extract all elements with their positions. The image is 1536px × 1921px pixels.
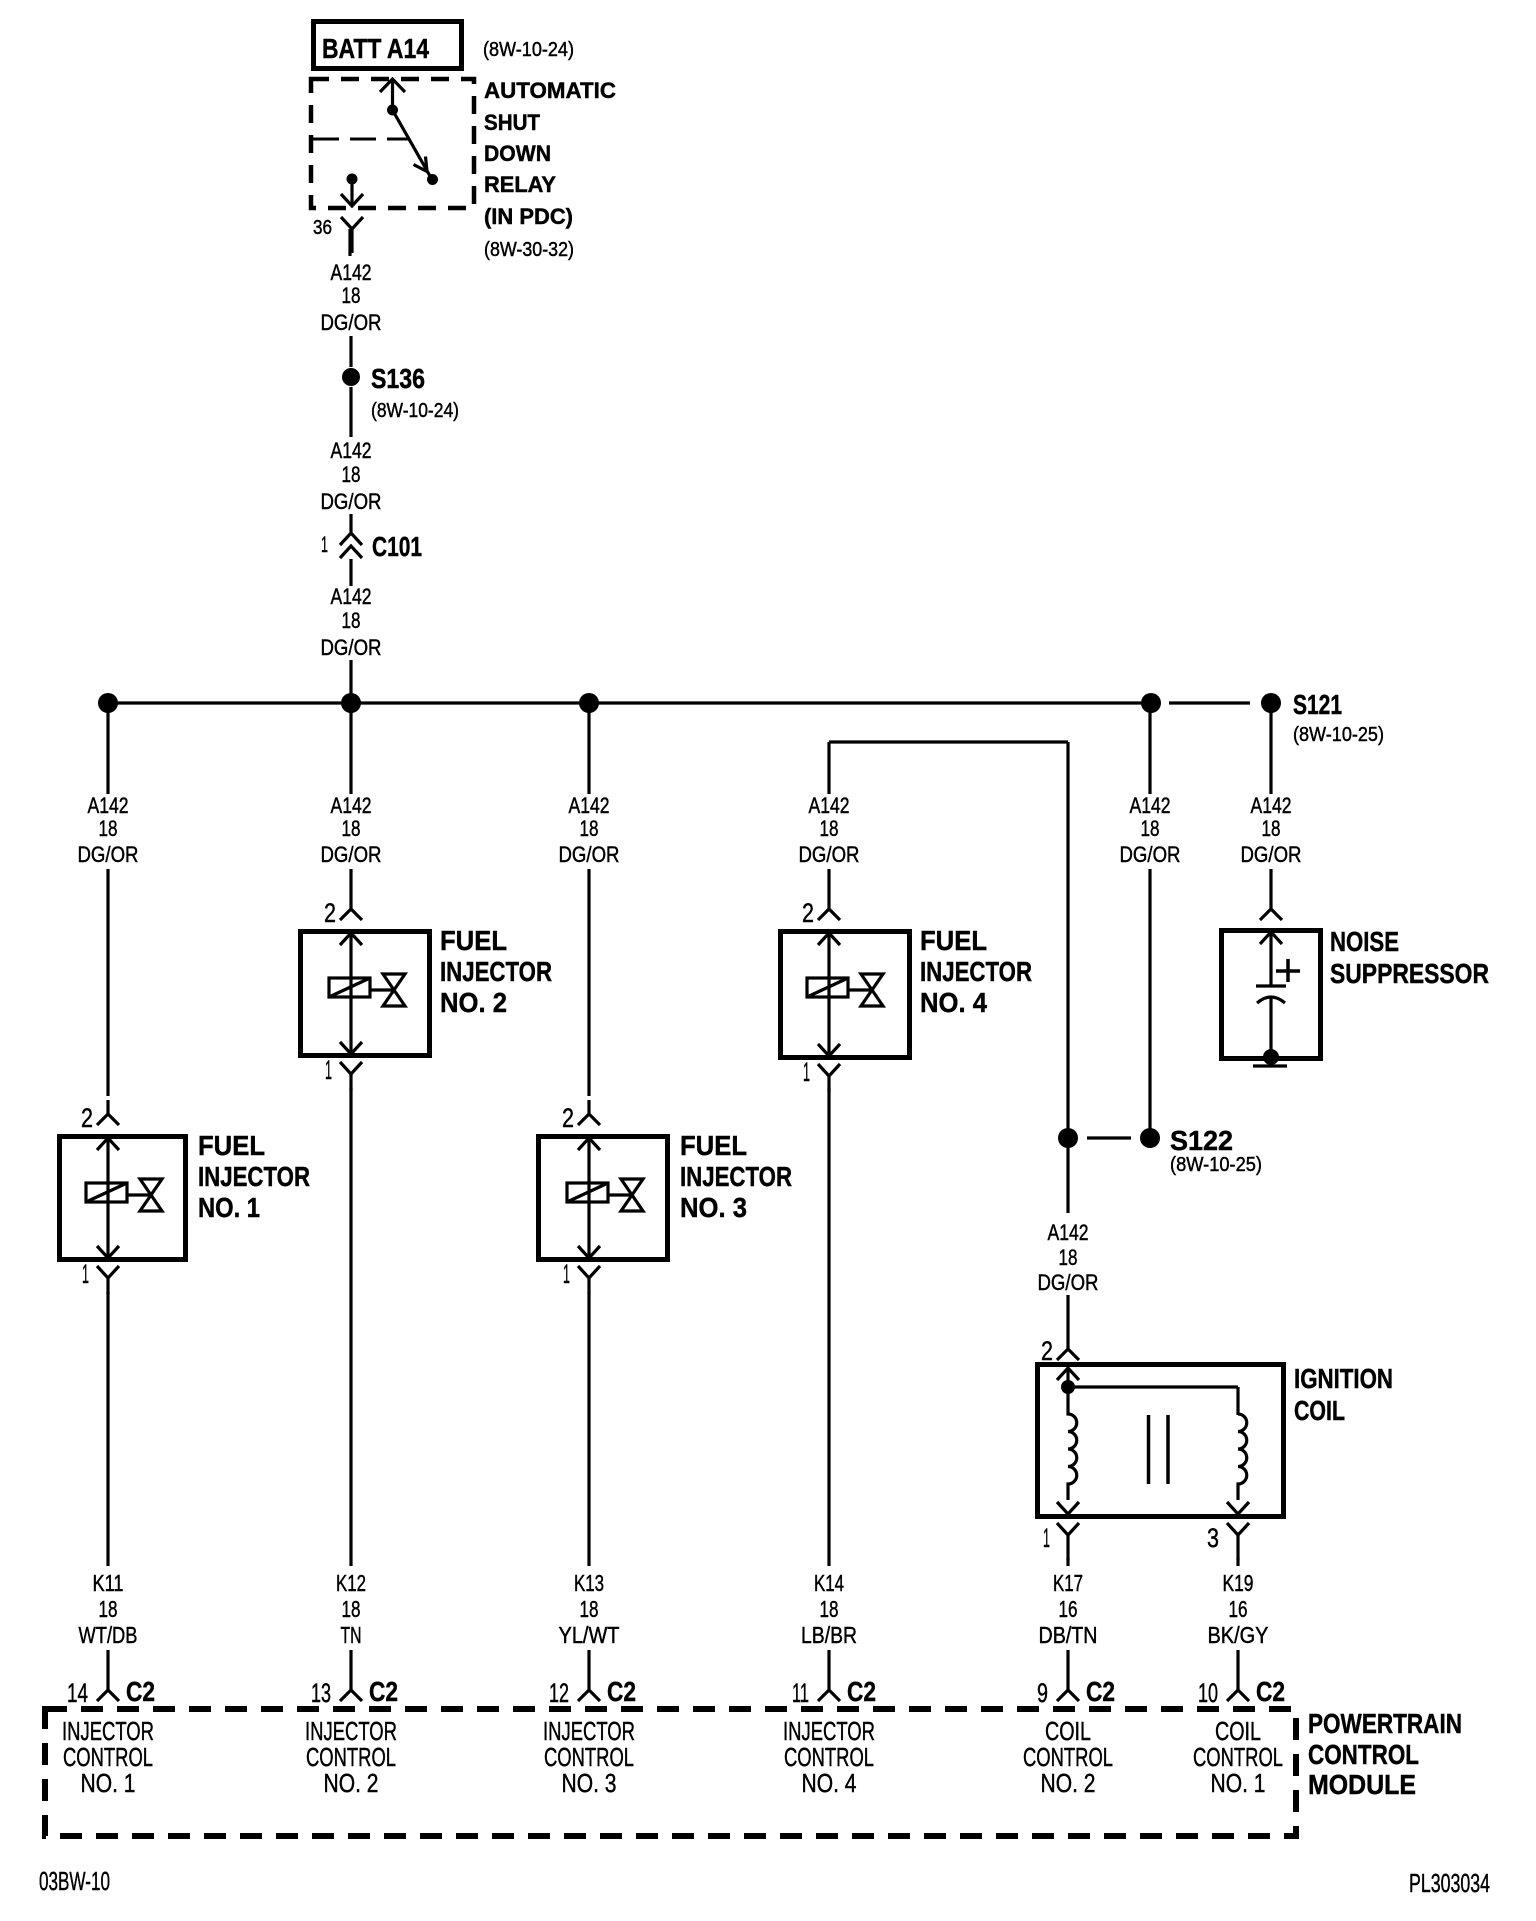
PCM text coil control no. 1 xyxy=(1193,1716,1283,1798)
wire xyxy=(349,336,352,367)
svg-text:12: 12 xyxy=(549,1678,569,1708)
svg-text:36: 36 xyxy=(313,217,332,239)
wire coil control 1 to PCM xyxy=(1236,1558,1239,1566)
bus junction dot (injector 1 drop) xyxy=(98,693,118,713)
svg-text:AUTOMATIC: AUTOMATIC xyxy=(484,78,616,103)
svg-text:A142: A142 xyxy=(1130,793,1171,818)
svg-text:2: 2 xyxy=(562,1103,574,1133)
PCM text injector control no. 4 xyxy=(783,1716,875,1798)
wire injector 3 feed upper xyxy=(587,703,590,794)
svg-text:DG/OR: DG/OR xyxy=(1038,1270,1099,1295)
svg-text:FUEL: FUEL xyxy=(920,925,987,956)
svg-text:IGNITION: IGNITION xyxy=(1294,1363,1393,1394)
wire label K17 16 DB/TN xyxy=(1039,1570,1098,1648)
wire label A142 18 DG/OR (S136 to C101) xyxy=(321,438,382,514)
svg-text:NOISE: NOISE xyxy=(1330,926,1399,957)
wire label K13 18 YL/WT xyxy=(559,1570,620,1648)
fuel injector NO. 3 label xyxy=(680,1130,792,1223)
svg-text:A142: A142 xyxy=(88,793,129,818)
svg-text:18: 18 xyxy=(580,1596,599,1622)
wire label A142 18 DG/OR (ignition coil feed) xyxy=(1038,1220,1099,1295)
splice S136 label xyxy=(371,363,459,422)
ignition coil pin 1 connector xyxy=(1057,1523,1079,1560)
PCM pin 14 connector xyxy=(97,1677,119,1701)
svg-text:NO. 4: NO. 4 xyxy=(920,987,987,1018)
svg-text:16: 16 xyxy=(1059,1596,1078,1622)
splice S121 dot xyxy=(1261,693,1281,713)
svg-text:18: 18 xyxy=(342,462,361,487)
wire injector 3 to PCM lower xyxy=(587,1650,590,1677)
wire label K19 16 BK/GY xyxy=(1208,1570,1269,1648)
svg-text:18: 18 xyxy=(820,816,839,841)
wire xyxy=(349,660,352,700)
svg-text:SUPPRESSOR: SUPPRESSOR xyxy=(1330,958,1489,989)
svg-text:DG/OR: DG/OR xyxy=(321,842,382,867)
svg-text:S121: S121 xyxy=(1293,689,1342,720)
svg-text:18: 18 xyxy=(342,816,361,841)
svg-text:INJECTOR: INJECTOR xyxy=(440,956,552,987)
svg-text:INJECTOR: INJECTOR xyxy=(680,1161,792,1192)
fuel injector NO. 4 box xyxy=(781,932,910,1058)
svg-text:(8W-10-24): (8W-10-24) xyxy=(371,400,459,422)
svg-text:K13: K13 xyxy=(574,1570,604,1596)
ignition coil pin 2 connector xyxy=(1057,1338,1079,1360)
wire injector 4 to PCM lower xyxy=(827,1650,830,1677)
svg-text:DG/OR: DG/OR xyxy=(321,310,382,335)
svg-text:C2: C2 xyxy=(847,1676,876,1707)
fuel injector NO. 1 label xyxy=(198,1130,310,1223)
relay switch blade (diagonal with arrow) xyxy=(393,110,431,176)
svg-text:18: 18 xyxy=(820,1596,839,1622)
bus junction dot (main drop) xyxy=(341,693,361,713)
wire injector 1 to PCM lower xyxy=(106,1650,109,1677)
svg-text:(IN PDC): (IN PDC) xyxy=(484,204,573,229)
svg-text:14: 14 xyxy=(67,1678,88,1708)
relay internal divider (dashed) xyxy=(313,138,408,141)
svg-text:18: 18 xyxy=(580,816,599,841)
svg-text:NO. 3: NO. 3 xyxy=(680,1192,747,1223)
svg-text:(8W-10-25): (8W-10-25) xyxy=(1293,724,1384,746)
svg-text:1: 1 xyxy=(803,1057,810,1087)
wire label A142 18 DG/OR (injector 2) xyxy=(321,793,382,867)
svg-text:2: 2 xyxy=(802,898,814,928)
svg-text:K14: K14 xyxy=(814,1570,844,1596)
wire injector 4 to PCM xyxy=(827,1088,830,1566)
svg-text:1: 1 xyxy=(82,1259,89,1289)
pin 2 connector of injector NO. 1 xyxy=(97,1100,119,1125)
wire label K12 18 TN xyxy=(336,1570,366,1648)
svg-text:COIL: COIL xyxy=(1294,1395,1345,1426)
svg-text:A142: A142 xyxy=(331,584,372,609)
svg-text:03BW-10: 03BW-10 xyxy=(39,1866,110,1896)
svg-text:FUEL: FUEL xyxy=(198,1130,265,1161)
pin 1 connector of injector NO. 2 xyxy=(340,1062,362,1090)
noise suppressor label xyxy=(1330,926,1489,989)
svg-text:2: 2 xyxy=(324,898,336,928)
pin 36 connector xyxy=(341,217,363,253)
wire S122 drop lower xyxy=(1148,869,1151,1129)
bus wire dash segment xyxy=(1169,701,1250,704)
svg-text:13: 13 xyxy=(311,1678,331,1708)
svg-text:K11: K11 xyxy=(93,1570,124,1596)
wire injector 1 feed upper xyxy=(106,703,109,794)
svg-text:K19: K19 xyxy=(1223,1570,1254,1596)
splice S136 dot xyxy=(342,368,360,386)
svg-text:C2: C2 xyxy=(1256,1676,1285,1707)
svg-text:1: 1 xyxy=(563,1259,570,1289)
fuel injector NO. 4 label xyxy=(920,925,1032,1018)
svg-text:(8W-10-24): (8W-10-24) xyxy=(483,39,574,61)
PCM text coil control no. 2 xyxy=(1023,1716,1113,1798)
wire label A142 18 DG/OR (injector 3) xyxy=(559,793,620,867)
pin 2 connector of injector NO. 3 xyxy=(578,1100,600,1125)
relay name text xyxy=(484,78,616,229)
wire xyxy=(1066,1295,1069,1338)
wire coil control 1 to PCM lower xyxy=(1236,1650,1239,1677)
ignition coil internals xyxy=(1057,1368,1249,1514)
power bus wire (horizontal) xyxy=(108,701,1152,704)
fuel injector NO. 4 internals xyxy=(807,933,883,1056)
wire label K11 18 WT/DB xyxy=(79,1570,138,1648)
svg-text:FUEL: FUEL xyxy=(680,1130,747,1161)
ground bar xyxy=(1253,1064,1287,1067)
ignition coil box xyxy=(1038,1365,1284,1517)
wire injector 2 feed lower xyxy=(349,869,352,895)
wire S122 to branch (vertical) xyxy=(1066,742,1069,1129)
fuel injector NO. 3 internals xyxy=(567,1138,643,1258)
svg-text:NO. 3: NO. 3 xyxy=(562,1768,617,1798)
splice S122 right dot xyxy=(1140,1128,1160,1148)
relay common terminal arrow to BATT xyxy=(380,79,405,110)
svg-text:DG/OR: DG/OR xyxy=(78,842,139,867)
pin 1 connector of injector NO. 4 xyxy=(818,1064,840,1092)
PCM pin 10 connector xyxy=(1227,1677,1249,1701)
svg-text:1: 1 xyxy=(321,532,328,557)
svg-text:C2: C2 xyxy=(126,1676,155,1707)
relay common terminal dot xyxy=(387,105,398,116)
svg-text:16: 16 xyxy=(1229,1596,1248,1622)
pin 2 connector of injector NO. 2 xyxy=(340,895,362,920)
pin 1 connector of injector NO. 1 xyxy=(97,1266,119,1294)
wire injector 4 feed upper xyxy=(827,742,830,794)
svg-text:2: 2 xyxy=(81,1103,93,1133)
wire coil control 2 to PCM xyxy=(1066,1558,1069,1566)
svg-text:BK/GY: BK/GY xyxy=(1208,1622,1269,1648)
svg-text:A142: A142 xyxy=(569,793,610,818)
svg-text:NO. 1: NO. 1 xyxy=(81,1768,136,1798)
powertrain control module box (dashed) xyxy=(45,1709,1296,1836)
svg-text:18: 18 xyxy=(1059,1245,1078,1270)
wire label A142 18 DG/OR (injector 4) xyxy=(799,793,860,867)
svg-text:FUEL: FUEL xyxy=(440,925,507,956)
wire main drop below bus xyxy=(349,703,352,794)
svg-text:TN: TN xyxy=(341,1622,362,1648)
wire from pin 36 down xyxy=(348,229,351,256)
noise suppressor box xyxy=(1222,931,1321,1059)
svg-text:DG/OR: DG/OR xyxy=(799,842,860,867)
svg-text:18: 18 xyxy=(1141,816,1160,841)
PCM pin 9 connector xyxy=(1057,1677,1079,1701)
wire injector 3 to PCM xyxy=(587,1292,590,1566)
wire label A142 18 DG/OR (S122 drop) xyxy=(1120,793,1181,867)
wire injector 1 feed lower xyxy=(106,869,109,1096)
svg-text:WT/DB: WT/DB xyxy=(79,1622,138,1648)
svg-text:S122: S122 xyxy=(1170,1125,1233,1156)
wire S122 feed upper xyxy=(1148,703,1151,794)
battery feed box BATT A14 xyxy=(314,22,462,69)
svg-text:LB/BR: LB/BR xyxy=(801,1622,857,1648)
noise suppressor capacitor internals xyxy=(1256,932,1300,1052)
wire label A142 18 DG/OR (C101 to bus) xyxy=(321,584,382,660)
svg-text:2: 2 xyxy=(1041,1336,1053,1366)
wire label A142 18 DG/OR (injector 1) xyxy=(78,793,139,867)
noise suppressor ground dot xyxy=(1263,1049,1279,1065)
wire label A142 18 DG/OR (relay to S136) xyxy=(321,260,382,335)
wire injector 3 feed lower xyxy=(587,869,590,1096)
PCM pin 13 connector xyxy=(340,1677,362,1701)
svg-text:MODULE: MODULE xyxy=(1308,1769,1416,1800)
svg-text:NO. 2: NO. 2 xyxy=(1041,1768,1096,1798)
relay output lead arrow down xyxy=(341,179,363,206)
wire xyxy=(349,387,352,437)
svg-text:CONTROL: CONTROL xyxy=(1308,1739,1419,1770)
svg-text:DG/OR: DG/OR xyxy=(321,635,382,660)
svg-text:C2: C2 xyxy=(369,1676,398,1707)
svg-text:RELAY: RELAY xyxy=(484,172,556,197)
svg-text:A142: A142 xyxy=(331,438,372,463)
splice S122 label xyxy=(1170,1125,1262,1176)
svg-text:NO. 1: NO. 1 xyxy=(198,1192,260,1223)
wire S122 to ignition coil xyxy=(1066,1148,1069,1213)
fuel injector NO. 1 internals xyxy=(86,1138,162,1258)
svg-text:18: 18 xyxy=(99,816,118,841)
svg-text:9: 9 xyxy=(1037,1678,1048,1708)
wire injector 4 feed lower xyxy=(827,869,830,895)
wire label A142 18 DG/OR (noise suppressor) xyxy=(1241,793,1302,867)
svg-text:INJECTOR: INJECTOR xyxy=(198,1161,310,1192)
svg-text:A142: A142 xyxy=(331,260,372,285)
svg-text:11: 11 xyxy=(792,1678,809,1708)
svg-text:NO. 4: NO. 4 xyxy=(802,1768,857,1798)
wire injector 2 to PCM lower xyxy=(349,1650,352,1677)
svg-text:1: 1 xyxy=(325,1055,332,1085)
fuel injector NO. 1 box xyxy=(60,1137,186,1260)
splice S121 label xyxy=(1293,689,1384,746)
svg-text:18: 18 xyxy=(99,1596,118,1622)
wire noise suppressor feed upper xyxy=(1269,703,1272,794)
svg-text:INJECTOR: INJECTOR xyxy=(920,956,1032,987)
svg-text:C2: C2 xyxy=(1086,1676,1115,1707)
svg-text:10: 10 xyxy=(1198,1678,1218,1708)
powertrain control module label xyxy=(1308,1708,1462,1800)
bus junction dot (injector 3 drop) xyxy=(579,693,599,713)
wire label K14 18 LB/BR xyxy=(801,1570,857,1648)
svg-text:DG/OR: DG/OR xyxy=(321,489,382,514)
wire coil control 2 to PCM lower xyxy=(1066,1650,1069,1677)
svg-text:S136: S136 xyxy=(371,363,425,394)
connector C101 symbol xyxy=(340,533,362,558)
wire injector 2 to PCM xyxy=(349,1088,352,1566)
svg-text:K12: K12 xyxy=(336,1570,366,1596)
wire injector 1 to PCM xyxy=(106,1292,109,1566)
relay output contact dot xyxy=(347,174,358,185)
svg-text:18: 18 xyxy=(342,1596,361,1622)
svg-text:A142: A142 xyxy=(1048,1220,1089,1245)
svg-text:DG/OR: DG/OR xyxy=(559,842,620,867)
noise suppressor pin connector xyxy=(1260,896,1282,920)
PCM text injector control no. 1 xyxy=(62,1716,154,1798)
svg-text:DG/OR: DG/OR xyxy=(1120,842,1181,867)
PCM pin 12 connector xyxy=(578,1677,600,1701)
pin 2 connector of injector NO. 4 xyxy=(818,895,840,920)
pin 1 connector of injector NO. 3 xyxy=(578,1266,600,1294)
svg-text:DG/OR: DG/OR xyxy=(1241,842,1302,867)
svg-text:C101: C101 xyxy=(372,531,422,562)
svg-text:A142: A142 xyxy=(1251,793,1292,818)
svg-text:YL/WT: YL/WT xyxy=(559,1622,620,1648)
wire noise suppressor feed lower xyxy=(1269,869,1272,896)
svg-text:POWERTRAIN: POWERTRAIN xyxy=(1308,1708,1462,1739)
ignition coil label xyxy=(1294,1363,1393,1426)
svg-text:(8W-30-32): (8W-30-32) xyxy=(484,239,574,261)
svg-text:BATT A14: BATT A14 xyxy=(322,33,429,64)
wire xyxy=(349,514,352,532)
svg-text:NO. 2: NO. 2 xyxy=(324,1768,379,1798)
PCM text injector control no. 2 xyxy=(305,1716,397,1798)
svg-text:DB/TN: DB/TN xyxy=(1039,1622,1098,1648)
fuel injector NO. 2 box xyxy=(301,932,430,1056)
svg-text:SHUT: SHUT xyxy=(484,110,541,135)
automatic shut down relay box (dashed) xyxy=(311,79,474,208)
svg-text:K17: K17 xyxy=(1053,1570,1083,1596)
svg-text:1: 1 xyxy=(1043,1523,1050,1553)
ignition coil pin 3 connector xyxy=(1227,1523,1249,1560)
bus junction dot (S122 feed drop) xyxy=(1141,693,1161,713)
svg-text:C2: C2 xyxy=(607,1676,636,1707)
PCM pin 11 connector xyxy=(818,1677,840,1701)
fuel injector NO. 3 box xyxy=(539,1137,668,1260)
fuel injector NO. 2 internals xyxy=(329,933,405,1054)
svg-text:(8W-10-25): (8W-10-25) xyxy=(1170,1154,1262,1176)
relay NO contact dot xyxy=(427,174,438,185)
wire xyxy=(349,559,352,586)
svg-text:18: 18 xyxy=(342,283,361,308)
svg-text:18: 18 xyxy=(342,608,361,633)
svg-text:A142: A142 xyxy=(331,793,372,818)
svg-text:3: 3 xyxy=(1207,1523,1219,1553)
splice S122 link wire xyxy=(1087,1136,1131,1139)
branch wire to injector 4 (horizontal) xyxy=(829,740,1068,743)
svg-text:A142: A142 xyxy=(809,793,850,818)
fuel injector NO. 2 label xyxy=(440,925,552,1018)
svg-text:DOWN: DOWN xyxy=(484,141,551,166)
svg-text:18: 18 xyxy=(1262,816,1281,841)
svg-text:PL303034: PL303034 xyxy=(1409,1868,1490,1898)
svg-text:NO. 1: NO. 1 xyxy=(1211,1768,1266,1798)
splice S122 left dot xyxy=(1058,1128,1078,1148)
PCM text injector control no. 3 xyxy=(543,1716,635,1798)
svg-text:NO. 2: NO. 2 xyxy=(440,987,507,1018)
